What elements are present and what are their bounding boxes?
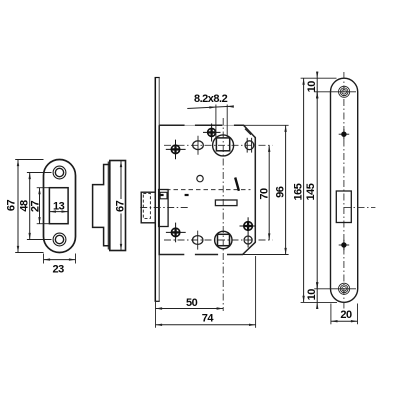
dimension 67 left [15,160,43,253]
dimension 27 [37,188,50,224]
center line spindle vertical [222,118,224,311]
hole bold cross right [240,217,256,247]
pin hole bottom [339,240,350,250]
latch hole rectangle [336,191,351,223]
svg-text:10: 10 [306,289,318,301]
latch bolt head [141,192,155,223]
latch opening rectangle [49,188,68,224]
latch body [159,190,169,227]
lever mark [235,178,239,191]
hole slot top-right [245,138,254,153]
svg-text:165: 165 [292,183,304,200]
spindle hole top [213,135,234,156]
dimension 10 bottom [316,282,318,309]
hidden line case middle [166,189,251,191]
dimension 48 [27,173,52,240]
hole open cross bottom-right [244,236,252,244]
small pin circle [197,175,203,181]
svg-text:96: 96 [275,186,287,198]
faceplate outline [331,78,358,302]
dimension 67 side [120,161,122,251]
svg-text:48: 48 [19,200,31,212]
center line latch horizontal [344,206,375,208]
tab mark left [159,194,163,196]
hole bold cross top-small [203,124,221,142]
dust box step profile [93,165,110,246]
svg-text:67: 67 [114,200,126,212]
hole bold cross bottom-left [166,223,186,243]
hole oval top-middle [193,136,204,155]
lock case outline [159,125,255,254]
svg-text:27: 27 [30,201,42,213]
case top tab slot thin lines [185,124,234,126]
dimension 145 [314,92,356,289]
dimension 23 [44,254,76,264]
faceplate strip [155,78,160,302]
tab mark mid [185,194,189,196]
dimension 10 top [316,72,318,99]
screw hole bottom [53,233,66,246]
svg-text:23: 23 [52,263,64,275]
center line bottom row [164,239,272,241]
spindle hole bottom [215,231,232,248]
svg-text:145: 145 [305,183,317,200]
plate face inner line [107,162,109,250]
screw hole bottom right view [339,283,350,294]
strike plate outline [44,160,76,253]
svg-text:67: 67 [5,200,17,212]
dimension 165 [301,78,337,302]
screw hole top [53,166,66,179]
hole oval bottom-middle [193,231,203,250]
chamfer tick [245,129,251,135]
strike plate side slab [110,161,126,251]
dimension 8.2x8.2 [187,105,234,138]
screw hole top right view [339,86,350,97]
dimension 13 [49,210,68,212]
svg-text:20: 20 [340,309,352,321]
dimension 70 [268,145,270,240]
dimension 50 [156,302,224,328]
svg-text:50: 50 [186,297,198,309]
center line top row [164,144,272,146]
pin hole top [339,129,350,139]
svg-text:10: 10 [306,81,318,93]
svg-text:8.2x8.2: 8.2x8.2 [194,93,228,105]
interior slot [215,200,237,206]
svg-text:70: 70 [259,188,271,200]
dimension 74 [156,256,256,328]
svg-text:13: 13 [53,200,65,212]
dimension 96 [243,125,289,254]
hole bold cross top-left [166,140,186,160]
dimension 20 [331,304,358,325]
svg-text:74: 74 [202,313,215,325]
center line faceplate vertical [343,72,345,309]
center line latch [140,207,190,209]
